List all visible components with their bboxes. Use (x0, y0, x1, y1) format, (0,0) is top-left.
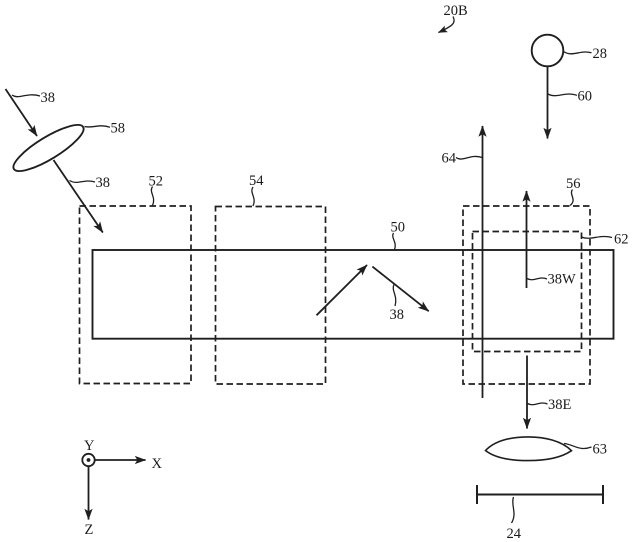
svg-text:56: 56 (566, 176, 581, 192)
svg-text:52: 52 (149, 173, 164, 189)
svg-text:X: X (152, 456, 163, 472)
svg-text:54: 54 (249, 173, 264, 189)
svg-text:20B: 20B (444, 3, 468, 19)
svg-text:50: 50 (391, 220, 406, 236)
svg-text:38: 38 (390, 307, 405, 323)
svg-text:62: 62 (614, 231, 629, 247)
svg-text:28: 28 (593, 46, 608, 62)
svg-text:58: 58 (111, 121, 126, 137)
svg-text:64: 64 (442, 151, 457, 167)
svg-text:63: 63 (593, 442, 608, 458)
svg-text:38E: 38E (548, 397, 572, 413)
svg-text:60: 60 (578, 88, 593, 104)
svg-text:Z: Z (85, 522, 94, 538)
svg-text:38: 38 (96, 175, 111, 191)
svg-text:38: 38 (41, 90, 56, 106)
svg-text:Y: Y (84, 438, 95, 454)
svg-text:24: 24 (507, 526, 522, 542)
svg-text:38W: 38W (548, 272, 577, 288)
